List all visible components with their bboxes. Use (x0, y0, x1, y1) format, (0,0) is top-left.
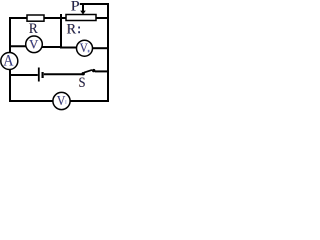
wire: battery to switch (44, 73, 83, 75)
resistor R (27, 15, 44, 21)
wire: left vertical bus (9, 17, 11, 102)
label R1 (66, 21, 80, 37)
voltmeter V3 (bottom) (53, 92, 70, 109)
voltmeter V1 (26, 36, 43, 53)
svg-text:V: V (80, 40, 89, 55)
label P (70, 0, 79, 15)
switch S lever (84, 70, 92, 73)
wire: V1 to node J1 (42, 46, 61, 48)
wire: top-right horizontal (80, 3, 109, 5)
label S (78, 75, 85, 91)
svg-text:R: R (29, 21, 38, 37)
battery cell short plate (41, 72, 43, 78)
wire: bottom left (9, 100, 54, 102)
svg-text:V: V (29, 37, 39, 52)
switch S terminal dot right (92, 69, 95, 72)
wire: V2 to right bus (93, 47, 109, 49)
wire: right vertical bus (107, 3, 109, 102)
wire: left bus to voltmeter V1 (9, 45, 27, 47)
svg-text:P: P (71, 0, 80, 15)
ammeter A (1, 53, 18, 70)
wire: battery branch left (10, 74, 38, 76)
svg-text:R: R (67, 21, 77, 37)
switch S terminal dot left (82, 72, 85, 75)
voltmeter V2 (77, 40, 93, 56)
svg-text:S: S (79, 75, 86, 91)
svg-text:A: A (3, 53, 14, 70)
battery cell long plate (38, 68, 40, 82)
wire: switch to right bus (95, 70, 108, 72)
rheostat (potentiometer) box (66, 15, 96, 21)
wire: rheostat right terminal to right bus (96, 17, 108, 19)
voltmeter V3 subscript mark (65, 100, 67, 104)
potentiometer slider arrow (82, 4, 84, 11)
wire: top-left horizontal (node to R to junction) (9, 17, 66, 19)
node J1 vertical wire (junction down to voltmeter row) (60, 14, 62, 49)
wire: bottom right (70, 100, 108, 102)
label R (28, 21, 37, 37)
svg-text:V: V (57, 93, 66, 108)
wire: node J1 to voltmeter V2 (61, 47, 78, 49)
